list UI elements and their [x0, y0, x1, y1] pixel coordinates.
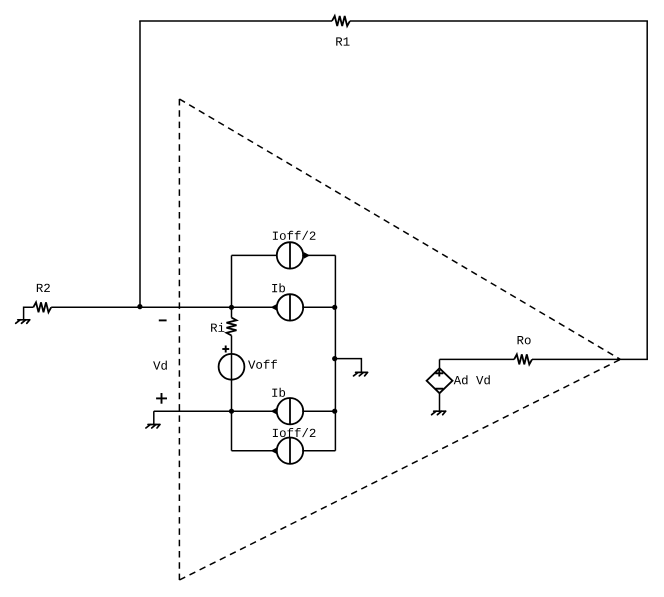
- wire: non-inverting input: [154, 410, 277, 412]
- wire: Ib top to right rail: [302, 306, 335, 308]
- current source Ib (bottom): [277, 398, 303, 424]
- current source Ib (top): [277, 294, 303, 320]
- resistor Ro: [514, 354, 532, 364]
- label + (non-inverting input): [156, 393, 167, 404]
- wire: bottom loop left: [232, 450, 277, 452]
- ground (dependent source): [432, 411, 446, 415]
- label R2: [37, 284, 50, 292]
- wire: dependent source stem bottom: [439, 393, 441, 411]
- wire: feedback top right segment: [350, 20, 648, 22]
- arrow (Ioff/2 bottom, pointing left): [271, 447, 277, 454]
- arrow (Ib top, pointing left): [271, 304, 277, 311]
- label R1: [336, 37, 349, 45]
- ground (R2 input source): [16, 307, 34, 323]
- label + (Voff polarity): [222, 346, 229, 353]
- label Ioff/2 (bottom): [273, 428, 316, 437]
- wire: dependent source stem top: [439, 359, 441, 368]
- node: right-rail ground tap junction: [332, 356, 337, 361]
- node: inverting/left-rail junction: [229, 305, 234, 310]
- label + (Ad Vd polarity): [435, 370, 443, 377]
- ground (right rail): [354, 372, 368, 376]
- wire: Ib bottom to right rail: [302, 410, 335, 412]
- label Voff: [248, 360, 277, 369]
- wire: output right segment: [532, 358, 648, 360]
- resistor R1: [332, 16, 350, 26]
- label - (Ad Vd polarity): [435, 388, 443, 390]
- label Ro: [518, 336, 531, 344]
- ground (non-inverting input): [146, 411, 160, 428]
- label - (inverting input): [159, 319, 167, 321]
- wire: Ioff/2 bottom to right rail: [302, 450, 335, 452]
- resistor Ri: [227, 318, 237, 336]
- voltage source Voff: [219, 354, 245, 380]
- dependent source Ad Vd (diamond): [427, 368, 453, 393]
- node: non-inverting/left-rail junction: [229, 409, 234, 414]
- wire: inverting input: [51, 306, 277, 308]
- wire: top loop left: [232, 254, 277, 256]
- wire: feedback left vertical: [139, 21, 141, 307]
- label Ib (top): [272, 283, 285, 292]
- label Ioff/2 (top): [273, 231, 316, 240]
- label Vd: [153, 361, 167, 370]
- wire: right rail: [334, 255, 336, 450]
- label Ad Vd: [454, 375, 490, 384]
- resistor R2: [33, 302, 51, 312]
- arrow (Ib bottom, pointing left): [271, 408, 277, 415]
- wire: left rail upper: [231, 255, 233, 317]
- wire: feedback top left segment: [139, 20, 332, 22]
- wire: top loop right: [302, 254, 335, 256]
- current source Ioff/2 (top): [277, 242, 303, 268]
- label Ib (bottom): [272, 388, 285, 397]
- node: Ib top/right-rail junction: [332, 305, 337, 310]
- op-amp body (dashed triangle): [179, 99, 620, 580]
- label Ri: [211, 323, 224, 332]
- arrow (Ioff/2 top, pointing right): [304, 252, 310, 259]
- wire: left rail lower: [231, 336, 233, 451]
- node: Ib bottom/right-rail junction: [332, 409, 337, 414]
- wire: output left segment: [440, 358, 515, 360]
- wire: feedback right vertical: [646, 21, 648, 359]
- node: feedback/inverting junction: [137, 304, 142, 309]
- current source Ioff/2 (bottom): [277, 438, 303, 464]
- wire: ground tap: [335, 359, 361, 373]
